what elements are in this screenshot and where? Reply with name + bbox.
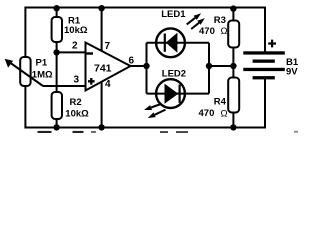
svg-text:LED2: LED2 [162,69,186,80]
svg-text:1MΩ: 1MΩ [32,70,53,81]
junction dot LED right branch [206,63,212,69]
junction dot top rail pin7 [98,5,104,11]
battery plus sign [268,40,276,48]
LED1 emission arrow lower [191,18,205,29]
svg-text:R4: R4 [214,97,227,108]
resistor R4 [228,78,239,113]
wire LED2 horizontal [147,93,210,95]
potentiometer P1 wiper arrowhead [5,59,13,68]
resistor R3 [228,21,239,48]
junction dot top rail R1 [53,5,59,11]
wire op-amp pin 4 supply [101,82,103,128]
LED1 diode triangle [166,33,178,53]
wire R3-R4 chain [232,8,234,128]
battery B1 plate 4 short [253,76,275,79]
battery B1 plate 3 long [243,68,284,71]
wire op-amp output pin 6 [131,65,147,67]
svg-text:470: 470 [199,26,215,37]
svg-text:10kΩ: 10kΩ [65,108,89,119]
junction dot output LED branch [143,63,149,69]
wire pin 3 input from wiper [43,85,86,87]
svg-text:3: 3 [74,75,80,86]
svg-text:741: 741 [94,63,112,75]
svg-text:6: 6 [129,56,135,67]
wire junction row to R3/R4 [209,65,233,67]
caption fragment 4 [160,131,168,133]
svg-text:4: 4 [105,79,111,90]
svg-text:R3: R3 [214,15,226,26]
caption fragment 2 [73,131,84,133]
wire LED left branch vertical [146,43,148,94]
caption fragment 1 [38,131,52,133]
resistor R2 [52,92,62,119]
battery B1 plate 1 long [243,51,284,54]
svg-text:Ω: Ω [221,26,228,37]
LED1 cathode bar [164,34,166,52]
svg-text:9V: 9V [286,67,298,78]
wire battery top lead [264,7,266,54]
junction dot bottom rail R2 [53,124,59,130]
svg-text:2: 2 [72,41,78,52]
potentiometer P1 body [20,57,30,86]
resistor R1 [52,17,62,42]
LED2 circle [156,79,185,108]
wire battery bottom lead [264,78,266,129]
svg-text:R2: R2 [70,97,82,108]
junction dot pin2 divider [53,49,59,55]
junction dot R3 R4 tap [230,63,236,69]
svg-text:Ω: Ω [221,108,228,119]
wire LED right branch vertical [208,43,210,94]
LED2 emission arrow upper [144,104,161,110]
junction dot top rail R3 [230,5,236,11]
battery B1 plate 2 short [253,60,275,63]
LED2 emission arrow lower [148,110,166,118]
svg-text:10kΩ: 10kΩ [64,25,88,36]
op-amp plus sign [88,78,95,85]
junction dot bottom rail pin4 [98,124,104,130]
wire R1-R2 divider chain [56,8,58,128]
svg-text:P1: P1 [36,58,48,69]
LED2 diode triangle [165,84,179,104]
wire LED1 anode horizontal [147,42,210,44]
svg-text:470: 470 [199,108,215,119]
wire top rail / left wire / bottom rail [25,8,265,128]
LED1 circle [156,28,185,57]
caption fragment 3 [91,131,96,133]
LED2 cathode bar [179,85,181,103]
op-amp U1 741 triangle [86,43,131,91]
caption fragment 6 [294,131,298,133]
op-amp minus sign [87,52,94,54]
svg-text:LED1: LED1 [161,9,186,20]
wire pin 2 input [57,51,86,53]
potentiometer P1 wiper diagonal [10,63,43,87]
svg-text:7: 7 [105,41,111,52]
LED1 emission arrow upper [187,13,201,24]
wire op-amp pin 7 supply [101,8,103,53]
caption fragment 5 [176,131,188,133]
junction dot bottom rail R4 [230,124,236,130]
